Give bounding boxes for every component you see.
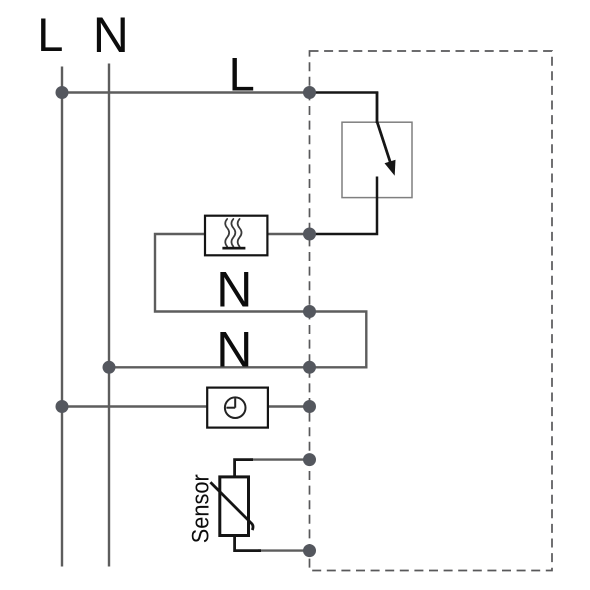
svg-text:L: L — [229, 47, 255, 100]
svg-text:N: N — [93, 7, 129, 63]
svg-text:Sensor: Sensor — [187, 474, 214, 543]
svg-text:N: N — [216, 321, 252, 377]
svg-text:N: N — [216, 262, 252, 318]
svg-text:L: L — [37, 8, 63, 61]
